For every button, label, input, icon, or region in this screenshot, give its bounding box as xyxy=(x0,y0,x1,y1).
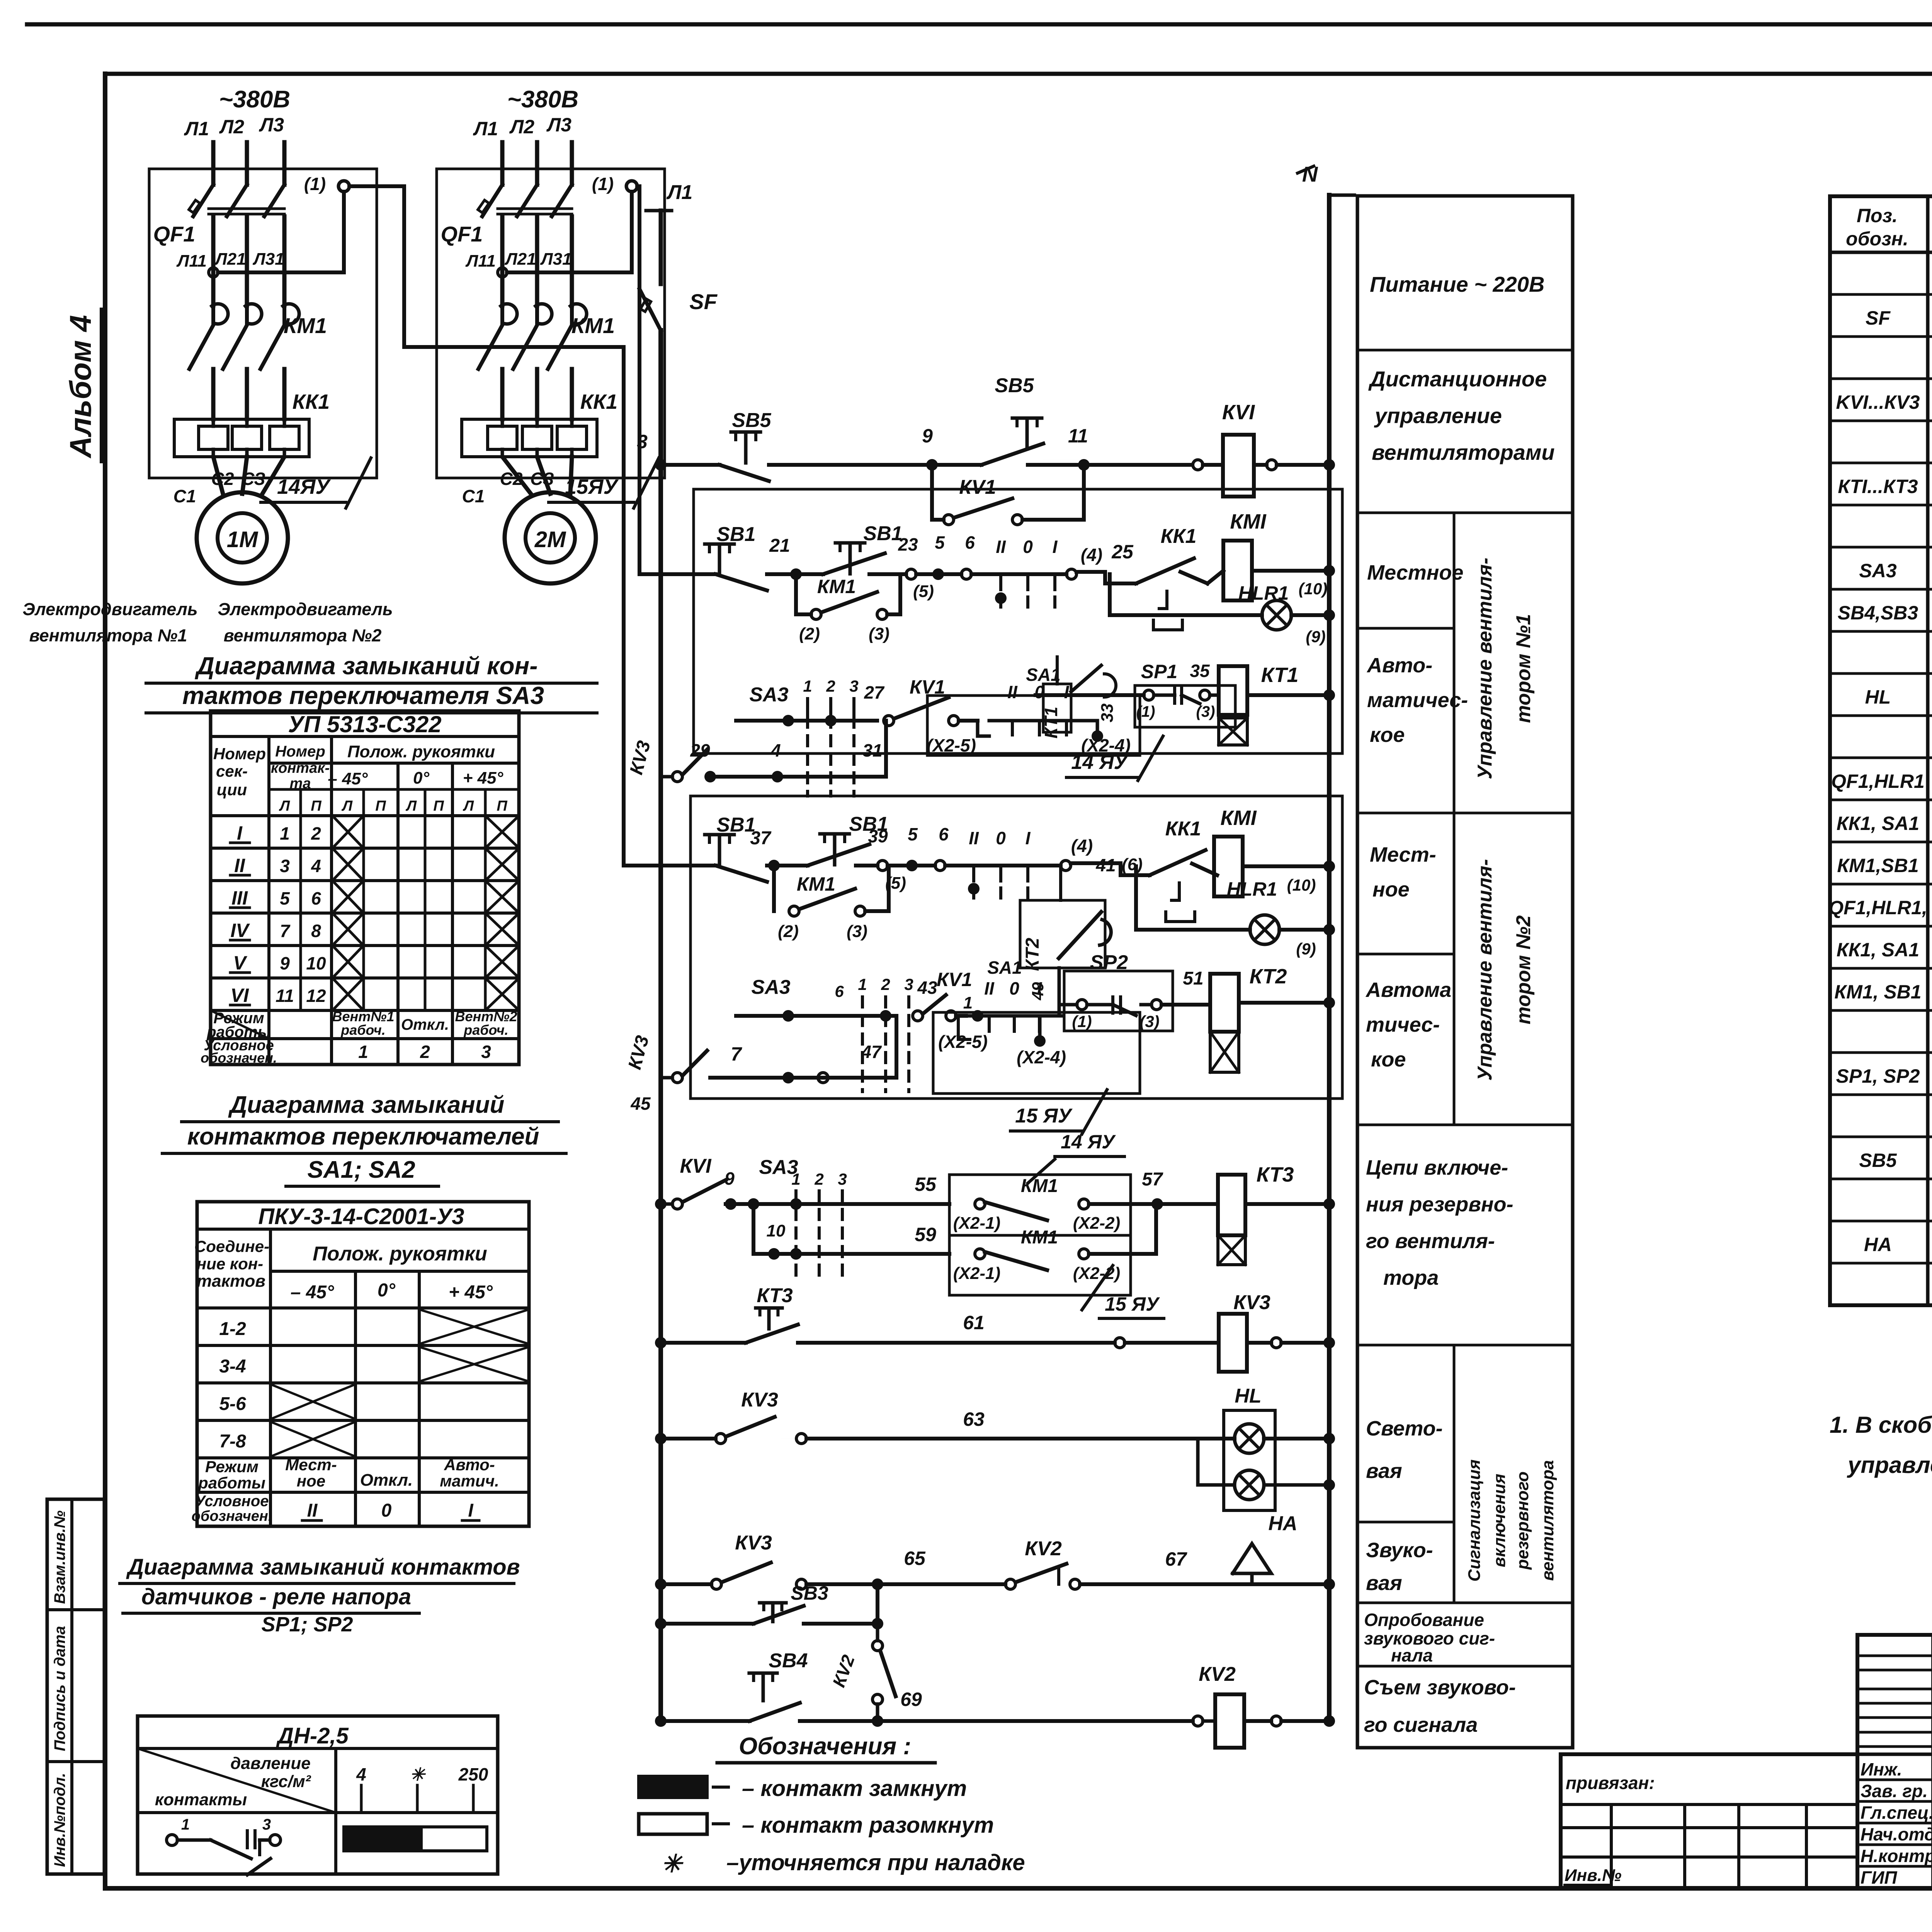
svg-text:23: 23 xyxy=(898,534,918,554)
svg-text:SА3: SА3 xyxy=(751,976,790,998)
node L11 and wire to terminal (1) 14ЯУ xyxy=(209,268,218,277)
svg-text:7: 7 xyxy=(280,921,291,941)
node 57 xyxy=(1151,1198,1163,1210)
svg-text:КМ1: КМ1 xyxy=(817,576,856,597)
selector SA1 SA2 contact closure table xyxy=(197,1202,529,1526)
svg-text:Л11: Л11 xyxy=(176,252,207,270)
svg-text:датчиков - реле напора: датчиков - реле напора xyxy=(141,1584,411,1609)
relay coil KV3 xyxy=(1219,1314,1247,1372)
wire 11 to KV1 coil xyxy=(1084,463,1192,467)
svg-text:ции: ции xyxy=(217,781,247,799)
function cell Автоматическое fan1 xyxy=(1357,812,1454,815)
svg-text:Управление вентиля-: Управление вентиля- xyxy=(1474,859,1496,1081)
svg-text:3: 3 xyxy=(849,677,858,695)
wires to motor 15ЯУ xyxy=(502,457,531,494)
svg-text:Л31: Л31 xyxy=(540,250,571,269)
svg-text:Подпись и дата: Подпись и дата xyxy=(51,1626,68,1751)
svg-text:обозначен.: обозначен. xyxy=(192,1508,272,1524)
svg-text:37: 37 xyxy=(750,828,772,849)
time relay contact KT3 rung 61 xyxy=(655,1337,667,1349)
svg-text:(6): (6) xyxy=(1122,855,1143,874)
time relay contact KT2 bypass fan2 xyxy=(1020,900,1105,968)
feeder lines L1 L2 L3 15ЯУ xyxy=(500,142,505,185)
function cell Звуковая xyxy=(1357,1602,1573,1604)
svg-text:Полож. рукоятки: Полож. рукоятки xyxy=(313,1243,487,1265)
svg-text:Съем звуково-: Съем звуково- xyxy=(1364,1676,1516,1699)
time relay coil KT3 xyxy=(1157,1202,1218,1206)
left margin stamp column box xyxy=(47,1499,104,1874)
svg-text:1. В скобках указана заво: 1. В скобках указана заводская маркировк… xyxy=(1830,1412,1932,1438)
svg-text:Л2: Л2 xyxy=(509,116,534,138)
svg-text:рабоч.: рабоч. xyxy=(340,1022,386,1038)
feeder lines L1 L2 L3 14ЯУ xyxy=(211,142,216,185)
svg-text:25: 25 xyxy=(1111,541,1134,563)
svg-text:КV1: КV1 xyxy=(959,476,996,498)
svg-text:✳: ✳ xyxy=(410,1764,426,1784)
svg-text:67: 67 xyxy=(1165,1548,1187,1570)
svg-text:9: 9 xyxy=(724,1168,735,1189)
wire 25 to KK1 fan1 xyxy=(1077,572,1136,583)
svg-text:SА3: SА3 xyxy=(1859,560,1896,582)
svg-text:Л3: Л3 xyxy=(259,114,284,136)
svg-text:резервного: резервного xyxy=(1513,1471,1532,1570)
svg-text:6: 6 xyxy=(835,982,844,1000)
svg-text:1: 1 xyxy=(358,1042,368,1062)
svg-text:15 ЯУ: 15 ЯУ xyxy=(1105,1293,1160,1315)
function cell Автоматическое fan2 xyxy=(1357,1124,1573,1126)
svg-text:43: 43 xyxy=(917,978,937,998)
svg-text:✳: ✳ xyxy=(661,1850,684,1878)
svg-text:SB5: SB5 xyxy=(1859,1150,1897,1171)
contactor KM1 main contacts 15ЯУ xyxy=(501,304,517,324)
svg-text:Н.контр.: Н.контр. xyxy=(1861,1846,1932,1866)
svg-text:(3): (3) xyxy=(847,922,867,941)
svg-text:Л: Л xyxy=(463,798,474,814)
title block upper small grid xyxy=(1857,1655,1932,1657)
svg-text:матич.: матич. xyxy=(440,1472,499,1490)
contactor KM1 main contacts 14ЯУ xyxy=(212,304,228,324)
svg-text:(1): (1) xyxy=(592,174,614,194)
svg-text:(1): (1) xyxy=(304,174,326,194)
svg-text:I: I xyxy=(468,1500,474,1521)
svg-text:(10): (10) xyxy=(1299,580,1328,598)
svg-text:1: 1 xyxy=(181,1816,190,1833)
svg-text:КТ3: КТ3 xyxy=(757,1284,793,1307)
thermal overload KK1 heaters 14ЯУ xyxy=(174,419,309,457)
svg-text:НА: НА xyxy=(1268,1512,1297,1535)
svg-text:SР1; SР2: SР1; SР2 xyxy=(261,1613,353,1636)
svg-text:KVI...КV3: KVI...КV3 xyxy=(1836,391,1920,413)
svg-text:14 ЯУ: 14 ЯУ xyxy=(1061,1131,1116,1153)
node 9 xyxy=(926,459,938,471)
svg-text:тором №2: тором №2 xyxy=(1512,915,1535,1024)
svg-text:3: 3 xyxy=(838,1170,847,1188)
svg-text:П: П xyxy=(375,798,386,814)
legend closed contact xyxy=(639,1776,707,1798)
svg-text:2: 2 xyxy=(826,677,835,695)
svg-text:Опробование: Опробование xyxy=(1364,1610,1484,1630)
title block left extension привязан xyxy=(1561,1754,1857,1888)
svg-text:HL: HL xyxy=(1865,686,1891,708)
svg-text:SB5: SB5 xyxy=(732,409,771,432)
svg-text:П: П xyxy=(311,798,321,814)
svg-text:С2: С2 xyxy=(500,469,523,489)
svg-text:КМ1: КМ1 xyxy=(571,313,615,338)
svg-text:63: 63 xyxy=(963,1408,985,1430)
svg-text:КТ3: КТ3 xyxy=(1257,1163,1294,1186)
svg-text:давление: давление xyxy=(230,1754,310,1773)
svg-text:кгс/м²: кгс/м² xyxy=(261,1772,311,1791)
svg-text:Л3: Л3 xyxy=(546,114,571,136)
svg-text:Л11: Л11 xyxy=(465,252,496,270)
svg-text:вентилятора №1: вентилятора №1 xyxy=(29,626,187,645)
svg-text:2: 2 xyxy=(420,1042,430,1062)
svg-text:Зав. гр.: Зав. гр. xyxy=(1861,1781,1928,1801)
svg-text:SР1: SР1 xyxy=(1141,661,1178,682)
svg-text:Электродвигатель: Электродвигатель xyxy=(22,599,197,619)
svg-text:КК1: КК1 xyxy=(1161,525,1197,548)
enclosure box fan2 control 15ЯУ xyxy=(690,796,1342,1099)
svg-text:3: 3 xyxy=(637,431,648,452)
svg-text:– 45°: – 45° xyxy=(328,769,368,788)
svg-text:29: 29 xyxy=(690,740,710,760)
svg-text:управление: управление xyxy=(1374,403,1502,428)
svg-text:250: 250 xyxy=(458,1764,488,1784)
wire rung KM1 fan2 xyxy=(624,864,711,867)
svg-text:9: 9 xyxy=(922,425,933,447)
relay coil KV1 xyxy=(1223,435,1254,497)
svg-text:5: 5 xyxy=(280,888,290,908)
svg-text:тичес-: тичес- xyxy=(1366,1013,1440,1036)
svg-text:(5): (5) xyxy=(885,874,906,893)
svg-text:8: 8 xyxy=(311,921,321,941)
svg-text:вая: вая xyxy=(1366,1571,1402,1595)
svg-text:кое: кое xyxy=(1371,1048,1406,1071)
auxiliary contact KM1 fan2 xyxy=(772,866,776,911)
svg-text:II: II xyxy=(996,537,1006,557)
svg-text:тором №1: тором №1 xyxy=(1512,614,1535,723)
svg-text:П: П xyxy=(433,798,444,814)
svg-text:Гл.спец.: Гл.спец. xyxy=(1861,1803,1932,1823)
svg-text:(Х2-5): (Х2-5) xyxy=(927,735,976,755)
svg-text:(3): (3) xyxy=(1139,1012,1159,1031)
svg-text:–уточняется при наладке: –уточняется при наладке xyxy=(726,1850,1025,1875)
svg-text:Альбом 4: Альбом 4 xyxy=(63,315,97,459)
svg-text:1: 1 xyxy=(803,677,812,695)
function column inner divider lower xyxy=(1453,1345,1456,1603)
svg-text:Диаграмма замыканий кон-: Диаграмма замыканий кон- xyxy=(195,652,538,680)
svg-text:II: II xyxy=(969,828,979,848)
svg-text:SB3: SB3 xyxy=(791,1582,828,1604)
node 65 xyxy=(872,1578,883,1590)
sheet top trim line xyxy=(27,22,1932,27)
svg-text:59: 59 xyxy=(915,1224,936,1245)
svg-text:СЗ: СЗ xyxy=(530,469,554,489)
svg-text:Номер: Номер xyxy=(275,743,325,760)
svg-text:3: 3 xyxy=(904,975,913,993)
legend open contact xyxy=(639,1814,707,1834)
sub-box SA1 terminals 15ЯУ xyxy=(933,1012,1140,1094)
svg-text:10: 10 xyxy=(306,953,326,973)
svg-text:+ 45°: + 45° xyxy=(449,1282,493,1303)
svg-text:Дистанционное: Дистанционное xyxy=(1368,367,1547,391)
function cell Цепи включения резервного вентилятора xyxy=(1357,1344,1573,1347)
auxiliary contact KM1 fan1 xyxy=(794,574,798,614)
svg-text:(3): (3) xyxy=(1196,703,1215,720)
svg-text:управления .: управления . xyxy=(1847,1452,1932,1478)
svg-text:(Х2-4): (Х2-4) xyxy=(1081,735,1131,755)
left control rail xyxy=(658,330,663,1721)
svg-text:Диаграмма замыканий: Диаграмма замыканий xyxy=(228,1092,505,1118)
svg-text:3: 3 xyxy=(262,1816,271,1833)
relay coil KV2 xyxy=(1215,1694,1244,1748)
terminal box KM1 X2-1 X2-2 15ЯУ reserve xyxy=(949,1235,1131,1295)
svg-text:Авто-: Авто- xyxy=(444,1456,495,1474)
svg-text:КК1: КК1 xyxy=(1165,818,1201,840)
svg-text:С2: С2 xyxy=(211,469,234,489)
svg-text:КV3: КV3 xyxy=(741,1389,778,1411)
svg-text:9: 9 xyxy=(280,953,290,973)
svg-text:IV: IV xyxy=(230,920,250,941)
svg-text:обозначен.: обозначен. xyxy=(201,1050,277,1066)
svg-text:7-8: 7-8 xyxy=(219,1431,246,1452)
svg-text:ние кон-: ние кон- xyxy=(197,1255,263,1273)
svg-text:та: та xyxy=(290,776,311,792)
svg-text:0°: 0° xyxy=(413,769,429,787)
node 11 xyxy=(1078,459,1090,471)
svg-text:рабоч.: рабоч. xyxy=(463,1022,509,1038)
svg-text:0: 0 xyxy=(996,828,1006,848)
svg-text:0: 0 xyxy=(381,1500,392,1521)
node 3 xyxy=(655,459,667,471)
svg-text:~380В: ~380В xyxy=(507,86,578,113)
svg-text:(10): (10) xyxy=(1287,876,1316,894)
svg-text:QF1,HLR1,: QF1,HLR1, xyxy=(1828,897,1927,918)
power box outline 15ЯУ xyxy=(437,169,665,478)
selector SA1 contacts fan2 xyxy=(935,861,945,871)
svg-text:Обозначения :: Обозначения : xyxy=(739,1733,911,1760)
svg-text:I: I xyxy=(237,822,243,844)
power box outline 14ЯУ xyxy=(149,169,377,478)
svg-text:N: N xyxy=(1302,162,1318,186)
relay contact KV3 rung 63 xyxy=(655,1433,667,1444)
svg-text:4: 4 xyxy=(356,1764,366,1784)
svg-text:(2): (2) xyxy=(799,624,820,643)
svg-text:10: 10 xyxy=(767,1221,786,1240)
svg-text:II: II xyxy=(984,978,995,998)
svg-text:Диаграмма замыканий контакто: Диаграмма замыканий контактов xyxy=(126,1554,520,1580)
svg-text:Л2: Л2 xyxy=(219,116,244,138)
svg-text:КМ1: КМ1 xyxy=(1021,1176,1058,1196)
svg-text:II: II xyxy=(1007,682,1018,702)
selector SA3 contact closure table xyxy=(211,711,519,1065)
contactor coil KM1 fan2 xyxy=(1214,837,1243,896)
svg-text:7: 7 xyxy=(731,1043,742,1065)
svg-text:II: II xyxy=(307,1500,318,1521)
svg-text:обозн.: обозн. xyxy=(1846,228,1908,250)
svg-text:2М: 2М xyxy=(534,527,566,552)
svg-text:55: 55 xyxy=(915,1173,937,1195)
svg-text:3: 3 xyxy=(481,1042,491,1062)
wire 41 to KK1 fan2 xyxy=(1071,863,1150,875)
svg-text:(3): (3) xyxy=(869,624,889,643)
svg-text:39: 39 xyxy=(868,826,888,846)
svg-text:Авто-: Авто- xyxy=(1366,654,1432,677)
svg-text:КТ2: КТ2 xyxy=(1250,965,1287,988)
drawing frame left edge xyxy=(103,74,107,1888)
svg-text:21: 21 xyxy=(769,536,790,556)
svg-text:SB4,SB3: SB4,SB3 xyxy=(1838,602,1918,624)
svg-text:КМ1: КМ1 xyxy=(1021,1227,1058,1248)
svg-text:Взам.инв.№: Взам.инв.№ xyxy=(51,1510,68,1604)
parts table grid xyxy=(1830,196,1932,1305)
svg-text:КМI: КМI xyxy=(1230,510,1266,533)
svg-text:QF1: QF1 xyxy=(441,222,483,246)
svg-text:НL: НL xyxy=(1235,1385,1261,1407)
svg-text:КМ1: КМ1 xyxy=(284,313,327,338)
svg-text:ное: ное xyxy=(297,1472,325,1490)
svg-text:ния резервно-: ния резервно- xyxy=(1366,1193,1513,1216)
svg-text:57: 57 xyxy=(1142,1169,1163,1190)
svg-text:6: 6 xyxy=(311,888,321,908)
svg-text:КVI: КVI xyxy=(680,1155,712,1177)
svg-text:вентилятора: вентилятора xyxy=(1538,1460,1557,1581)
node 21 fan1 xyxy=(790,568,802,580)
svg-text:SB1: SB1 xyxy=(716,523,755,546)
selector SA1 contacts fan1 xyxy=(961,569,971,579)
svg-text:31: 31 xyxy=(862,740,882,760)
svg-text:(Х2-1): (Х2-1) xyxy=(953,1214,1000,1233)
wire rung KM1 fan1 xyxy=(639,572,711,576)
svg-text:15ЯУ: 15ЯУ xyxy=(565,475,619,498)
svg-text:5: 5 xyxy=(935,532,945,553)
svg-text:КМI: КМI xyxy=(1220,806,1257,830)
svg-text:Инв.№подл.: Инв.№подл. xyxy=(51,1773,68,1867)
svg-text:5-6: 5-6 xyxy=(219,1394,246,1414)
svg-text:ГИП: ГИП xyxy=(1861,1867,1897,1888)
svg-text:(Х2-4): (Х2-4) xyxy=(1017,1047,1066,1067)
svg-text:5: 5 xyxy=(908,824,918,844)
svg-text:(9): (9) xyxy=(1296,940,1316,958)
wires to motor 14ЯУ xyxy=(213,457,223,494)
svg-text:КМ1,SB1: КМ1,SB1 xyxy=(1837,855,1918,876)
svg-text:11: 11 xyxy=(276,986,294,1006)
pressure sensor SP1 SP2 diagram table xyxy=(138,1716,498,1874)
svg-text:– 45°: – 45° xyxy=(291,1282,334,1303)
svg-text:(9): (9) xyxy=(1306,628,1325,646)
function cell Дистанционное управление вентиляторами xyxy=(1357,512,1573,514)
terminal (4) node 25 fan1 xyxy=(1066,569,1077,579)
svg-text:2: 2 xyxy=(881,975,890,993)
svg-text:(4): (4) xyxy=(1071,836,1093,856)
svg-text:ное: ное xyxy=(1372,878,1410,901)
svg-text:(1): (1) xyxy=(1072,1012,1092,1031)
svg-text:Л: Л xyxy=(405,798,417,814)
svg-text:49: 49 xyxy=(1029,982,1047,1000)
wires below QF1 14ЯУ xyxy=(211,216,216,305)
svg-text:(Х2-5): (Х2-5) xyxy=(938,1032,988,1052)
svg-text:КV1: КV1 xyxy=(937,969,972,990)
svg-text:1: 1 xyxy=(791,1170,800,1188)
svg-text:Л31: Л31 xyxy=(252,250,284,269)
svg-text:SА3: SА3 xyxy=(749,684,788,706)
svg-text:Л1: Л1 xyxy=(184,118,209,139)
svg-text:КК1, SА1: КК1, SА1 xyxy=(1837,813,1919,834)
svg-text:Свето-: Свето- xyxy=(1366,1417,1443,1440)
seal-in contact KV1 bypass xyxy=(930,465,934,520)
svg-text:SА1: SА1 xyxy=(987,957,1022,978)
motor 1М 14ЯУ xyxy=(197,492,288,583)
node L11 and wire to terminal (1) 15ЯУ xyxy=(498,268,507,277)
svg-text:6: 6 xyxy=(965,532,975,553)
function cell Световая xyxy=(1357,1521,1454,1524)
svg-text:вентиляторами: вентиляторами xyxy=(1372,440,1554,464)
svg-text:КV3: КV3 xyxy=(1233,1291,1270,1314)
svg-text:0: 0 xyxy=(1034,682,1044,702)
svg-text:II: II xyxy=(234,855,245,876)
svg-text:4: 4 xyxy=(311,856,321,876)
svg-text:Откл.: Откл. xyxy=(360,1471,413,1490)
svg-text:SF: SF xyxy=(689,289,718,314)
svg-text:11: 11 xyxy=(1068,425,1088,447)
svg-text:(4): (4) xyxy=(1081,545,1102,565)
pressure indicator bar closed/open xyxy=(344,1827,421,1851)
svg-text:2: 2 xyxy=(814,1170,823,1188)
svg-text:3-4: 3-4 xyxy=(219,1356,246,1377)
svg-text:контакты: контакты xyxy=(155,1790,247,1809)
function cell Питание 220В xyxy=(1357,349,1573,352)
svg-text:1: 1 xyxy=(858,975,867,993)
svg-text:Звуко-: Звуко- xyxy=(1366,1539,1433,1562)
node 9 reserve xyxy=(725,1198,736,1210)
function cell Опробование звукового сигнала xyxy=(1357,1665,1573,1668)
svg-text:С1: С1 xyxy=(173,486,196,506)
svg-text:тактов: тактов xyxy=(197,1272,265,1291)
svg-text:I: I xyxy=(1064,682,1070,702)
reset button SB4 xyxy=(655,1715,667,1727)
svg-text:1-2: 1-2 xyxy=(219,1319,246,1339)
svg-text:33: 33 xyxy=(1098,704,1117,723)
wire rung KV1 xyxy=(661,463,715,467)
svg-text:го вентиля-: го вентиля- xyxy=(1366,1230,1495,1253)
svg-text:СЗ: СЗ xyxy=(241,469,265,489)
time relay coil KT1 fan1 xyxy=(1219,666,1247,715)
svg-text:работы: работы xyxy=(198,1474,265,1492)
node 39 and 5 fan2 xyxy=(878,861,888,871)
svg-text:V: V xyxy=(233,952,247,974)
circuit breaker QF1 15ЯУ xyxy=(482,185,502,216)
svg-text:SB4: SB4 xyxy=(769,1650,808,1672)
svg-text:КVI: КVI xyxy=(1222,401,1255,424)
svg-text:С1: С1 xyxy=(462,486,485,506)
sub-box SA1 terminals 14ЯУ xyxy=(927,696,1140,755)
svg-text:SА1; SА2: SА1; SА2 xyxy=(307,1156,415,1183)
svg-text:I: I xyxy=(1053,537,1058,557)
function cell Местное fan1 xyxy=(1357,627,1454,630)
svg-text:SB5: SB5 xyxy=(995,374,1034,397)
svg-text:включения: включения xyxy=(1490,1474,1509,1567)
svg-text:Автома: Автома xyxy=(1365,978,1451,1002)
svg-text:Сигнализация: Сигнализация xyxy=(1465,1459,1484,1582)
svg-text:(1): (1) xyxy=(1136,703,1155,720)
svg-text:4: 4 xyxy=(770,740,781,760)
svg-text:НА: НА xyxy=(1864,1234,1892,1255)
svg-text:I: I xyxy=(1026,828,1031,848)
svg-text:Л21: Л21 xyxy=(214,250,246,269)
svg-text:69: 69 xyxy=(900,1689,922,1710)
svg-text:Мест-: Мест- xyxy=(285,1456,337,1474)
contact KV2 vertical branch xyxy=(876,1624,879,1641)
